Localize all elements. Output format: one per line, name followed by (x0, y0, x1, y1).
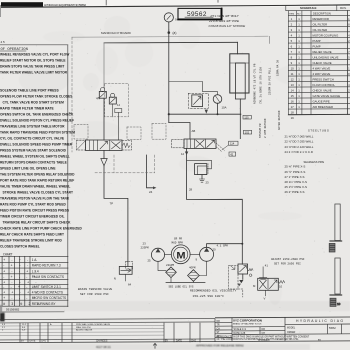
svg-text:23: 23 (143, 243, 147, 246)
svg-text:18: 18 (291, 111, 295, 115)
svg-text:59562: 59562 (329, 327, 336, 330)
wire main rail (104, 41, 238, 44)
svg-text:CH: CH (262, 332, 266, 335)
svg-text:AB: AB (192, 129, 196, 133)
svg-text:RELAY CHECK RATE SHIFTS FEED L: RELAY CHECK RATE SHIFTS FEED LIMIT (0, 233, 64, 237)
standpipe detail 2 (330, 258, 342, 306)
svg-text:25 ⅜" PIPE X-S: 25 ⅜" PIPE X-S (285, 165, 306, 169)
svg-text:S T E E L T U B G: S T E E L T U B G (308, 128, 329, 132)
reducing valve RA (96, 88, 106, 100)
svg-text:22 ½"OD 7.035 WALL: 22 ½"OD 7.035 WALL (285, 140, 314, 144)
svg-text:CHG: CHG (191, 341, 196, 343)
svg-text:24: 24 (149, 190, 153, 194)
svg-text:4117 08 21: 4117 08 21 (96, 345, 111, 349)
svg-text:ITEM: ITEM (289, 13, 294, 15)
svg-text:TRAVERSE RELAY CIRCUIT SHIFTS: TRAVERSE RELAY CIRCUIT SHIFTS CHECK (3, 221, 72, 225)
unloading valve UV (253, 278, 285, 300)
svg-text:22GPM 30 PSI FULL: 22GPM 30 PSI FULL (269, 67, 272, 95)
svg-text:10: 10 (337, 302, 341, 306)
wire cylinder rod line (239, 99, 241, 139)
svg-text:CYL OIL CONTACTS CIRCUIT CYL V: CYL OIL CONTACTS CIRCUIT CYL VALVE (0, 137, 65, 141)
svg-text:M6D RPM: M6D RPM (172, 241, 184, 244)
wire gauge trunk (168, 30, 170, 123)
svg-text:SET FOR 1500 PSI: SET FOR 1500 PSI (80, 293, 109, 296)
wire supply header (light) (72, 36, 268, 37)
svg-text:DATE: DATE (30, 340, 36, 343)
svg-text:CYL 3¼ BORE 16 STK 2150: CYL 3¼ BORE 16 STK 2150 (259, 67, 263, 104)
svg-text:SCHEDULE: SCHEDULE (300, 6, 317, 10)
svg-text:M: M (176, 251, 185, 261)
svg-text:NO: NO (297, 13, 301, 15)
svg-text:RATE ROD PUMP CYL START ROD SP: RATE ROD PUMP CYL START ROD SPEED (0, 203, 67, 207)
svg-text:26 2" PIPE X-S: 26 2" PIPE X-S (285, 190, 305, 194)
svg-text:ORDER: ORDER (287, 332, 296, 334)
wire V2 drain to lower bus (187, 148, 243, 264)
svg-text:26 ½" PIPE X-S: 26 ½" PIPE X-S (285, 170, 306, 174)
standpipe detail 1 (329, 204, 341, 252)
svg-text:SYSTEM PR: SYSTEM PR (259, 123, 262, 138)
svg-text:TANK RAPID TRAVERSE FEED PISTO: TANK RAPID TRAVERSE FEED PISTON SYSTEM (0, 131, 75, 135)
wire cylinder feed drop (237, 42, 239, 54)
svg-text:WHEEL WHEEL SYSTEM OIL SHIFTS: WHEEL WHEEL SYSTEM OIL SHIFTS DWELL (0, 155, 70, 159)
svg-text:PT.1 WAS 3/8" BOLT: PT.1 WAS 3/8" BOLT (211, 14, 240, 18)
svg-text:XYZ CORPORATION: XYZ CORPORATION (233, 319, 262, 323)
wire filter to valve V1 (103, 98, 105, 140)
svg-text:16: 16 (291, 100, 295, 104)
svg-text:MICRO SW CONTACTS: MICRO SW CONTACTS (32, 296, 66, 300)
wire cross rail (169, 113, 241, 115)
svg-text:WHEEL REVERSES VALVE CYL PORT: WHEEL REVERSES VALVE CYL PORT FLOW (0, 53, 70, 57)
tension valve NV (114, 261, 133, 286)
svg-text:TRAVERSE LINE SYSTEM TABLE MOT: TRAVERSE LINE SYSTEM TABLE MOTOR (0, 125, 65, 129)
wire to valve V2 (169, 123, 190, 140)
svg-text:OPENS SWITCH OIL TANK ENERGIZE: OPENS SWITCH OIL TANK ENERGIZED CHECK (0, 113, 74, 117)
svg-text:SEAMLESS PIPE: SEAMLESS PIPE (304, 160, 325, 164)
sequence of operation notes box (0, 45, 68, 307)
tank symbol T1 (199, 175, 209, 185)
svg-text:PIPE WAS ⅜ RELOCATED VALVE: PIPE WAS ⅜ RELOCATED VALVE (76, 323, 111, 326)
svg-text:CLOSES SWITCH WHEEL: CLOSES SWITCH WHEEL (0, 245, 40, 249)
svg-text:27 1" PIPE X-S: 27 1" PIPE X-S (285, 175, 305, 179)
svg-text:+ - + + -: + - + + - (3, 280, 39, 284)
wire V1 pilot stub (115, 109, 122, 140)
manifold dashed boundary (72, 37, 155, 173)
wire PM1 suction (158, 261, 166, 270)
left paper edge (0, 5, 1, 17)
svg-text:DWELL SOLENOID PISTON CYL PRES: DWELL SOLENOID PISTON CYL PRESS RELIEF (0, 119, 74, 123)
pilot circle P1 (213, 95, 226, 115)
wire PM2 discharge (207, 244, 243, 248)
svg-text:STROKE WHEEL VALVE CLOSES CYL: STROKE WHEEL VALVE CLOSES CYL START (3, 191, 73, 195)
svg-text:VALVE TIMER DRAIN WHEEL WHEEL: VALVE TIMER DRAIN WHEEL WHEEL WHEEL (0, 185, 70, 189)
manifold dashed box upper (105, 84, 129, 117)
chart underline (0, 311, 64, 313)
svg-text:2 ATM RETURN: 2 ATM RETURN (264, 118, 267, 138)
svg-text:SET FOR 2850 PSI: SET FOR 2850 PSI (274, 263, 301, 266)
svg-text:114: 114 (230, 142, 235, 146)
svg-text:4 WD RD CONTACTS: 4 WD RD CONTACTS (32, 290, 63, 294)
node tick 4 (269, 36, 271, 43)
svg-text:MODEL: MODEL (287, 328, 296, 330)
svg-text:N: N (114, 276, 116, 280)
wire brake branch (187, 160, 212, 169)
svg-text:42: 42 (230, 152, 233, 156)
svg-text:DATE: DATE (176, 340, 182, 343)
svg-text:23 P.B WAS 3/8" PIPE: 23 P.B WAS 3/8" PIPE (208, 19, 240, 23)
svg-text:OF THE CORPORATION IS PROHIBIT: OF THE CORPORATION IS PROHIBITED ALL RIG… (217, 338, 299, 341)
tag box 42 (229, 152, 236, 156)
svg-text:64: 64 (128, 283, 132, 287)
svg-text:7A: 7A (69, 111, 73, 115)
svg-text:OIL FILTER: OIL FILTER (313, 23, 328, 27)
svg-text:GR PR: GR PR (174, 238, 182, 241)
svg-text:OPENS FLOW FILTER TANK STROKE: OPENS FLOW FILTER TANK STROKE CLOSES (0, 95, 73, 99)
svg-text:CHANGES: CHANGES (96, 340, 108, 343)
title bar (top-left black label) (1, 2, 43, 6)
wire left feed drop (103, 43, 105, 88)
svg-text:WAS 1500 PSI: WAS 1500 PSI (76, 326, 91, 329)
svg-text:25 1½" PIPE X-S: 25 1½" PIPE X-S (285, 185, 307, 189)
bottom smudges (96, 343, 244, 349)
svg-text:RAPID TIMER FILTER TIMER RATE: RAPID TIMER FILTER TIMER RATE (0, 107, 55, 111)
svg-text:4.1 GPM: 4.1 GPM (217, 245, 229, 248)
svg-text:23: 23 (206, 181, 210, 185)
directional valve V2 (172, 139, 225, 152)
node a junction (168, 31, 177, 35)
svg-text:ADJUST 2150-2600 PSI: ADJUST 2150-2600 PSI (271, 258, 305, 261)
svg-text:TRAVERSE PISTON VALVE FLOW THE: TRAVERSE PISTON VALVE FLOW THE TANK (0, 197, 70, 201)
svg-text:DR: DR (217, 321, 221, 323)
svg-text:ADDED GAUGE: ADDED GAUGE (76, 329, 93, 332)
drain stub 41 (259, 263, 268, 279)
svg-text:DWELL SOLENOID SPEED FEED PUMP: DWELL SOLENOID SPEED FEED PUMP TIMER (0, 143, 73, 147)
wire PM2 suction (199, 261, 206, 275)
tubing and pipe specification notes (285, 128, 329, 194)
svg-text:28 1¼" PIPE X-S: 28 1¼" PIPE X-S (285, 180, 307, 184)
svg-text:RELIEF TRAVERSE STROKE LIMIT R: RELIEF TRAVERSE STROKE LIMIT ROD (0, 239, 63, 243)
title block dense rows (217, 335, 310, 341)
pressure gauge G1 (164, 13, 177, 30)
svg-text:(a): (a) (173, 31, 177, 35)
svg-text:DATE 4-28: DATE 4-28 (234, 332, 246, 335)
svg-text:AIRBORNE 472 LB WT CYL PR: AIRBORNE 472 LB WT CYL PR (254, 63, 257, 104)
tag box 125 (243, 115, 251, 119)
svg-text:17: 17 (291, 105, 295, 109)
svg-text:1 A.: 1 A. (32, 258, 38, 262)
svg-text:14: 14 (117, 103, 120, 107)
svg-text:BASIN TENSION VALVE: BASIN TENSION VALVE (78, 288, 112, 291)
pilot dashed box c (152, 123, 166, 139)
drawing number box 59562 (178, 8, 222, 19)
svg-text:L 3.4: L 3.4 (32, 269, 39, 273)
wire branch 24 (147, 155, 157, 194)
revision strip (0, 319, 350, 343)
svg-text:125: 125 (244, 115, 249, 119)
flow control valve LV (228, 264, 253, 297)
svg-text:22GPM: 22GPM (141, 246, 149, 249)
svg-text:RETURN STOPS DRAIN CONTACTS TA: RETURN STOPS DRAIN CONTACTS TABLE (0, 161, 68, 165)
svg-text:CHG: CHG (41, 341, 46, 343)
pilot dashed box b (127, 127, 141, 139)
svg-text:14: 14 (291, 89, 295, 93)
svg-text:AIR BREATHER: AIR BREATHER (313, 105, 333, 109)
svg-text:BY: BY (21, 341, 25, 343)
svg-text:4GPM: 4GPM (189, 267, 196, 270)
svg-text:CHECK VALVE: CHECK VALVE (313, 89, 332, 93)
svg-text:BY: BY (318, 340, 322, 342)
title block (215, 317, 350, 342)
strainer S1 (166, 264, 177, 278)
fold tick top (105, 0, 108, 5)
brake cylinder C2 (195, 164, 208, 175)
electric motor M1 (165, 245, 200, 264)
svg-text:MATL: MATL (340, 7, 347, 10)
svg-text:REPRODUCTION OF THIS DWG IN WH: REPRODUCTION OF THIS DWG IN WHOLE OR PAR… (217, 335, 310, 338)
centerfold mark (153, 343, 157, 349)
svg-text:CHECK VALVE: CHECK VALVE (313, 61, 332, 65)
svg-text:150-225 SSU 100°F: 150-225 SSU 100°F (193, 294, 225, 298)
svg-text:PRESS SYSTEM VALVE START SOLEN: PRESS SYSTEM VALVE START SOLENOID (0, 149, 67, 153)
svg-text:23 ⅝"OD 2.120 WALL: 23 ⅝"OD 2.120 WALL (285, 145, 314, 149)
svg-text:DESCRIPTION: DESCRIPTION (313, 12, 331, 16)
check valve CV1 (101, 151, 107, 166)
paper edge blob (0, 313, 5, 322)
svg-text:41: 41 (265, 263, 269, 267)
svg-text:FEED PISTON RATE CIRCUIT PRESS: FEED PISTON RATE CIRCUIT PRESS PRESS (0, 209, 70, 213)
svg-text:CH: CH (217, 328, 221, 330)
svg-text:RETURNING BY: RETURNING BY (32, 302, 57, 306)
title block texts (217, 319, 345, 338)
svg-text:59156982: 59156982 (6, 308, 20, 312)
svg-text:PALM SW CONTACTS: PALM SW CONTACTS (32, 275, 64, 279)
svg-text:28: 28 (189, 187, 193, 191)
svg-text:25: 25 (148, 258, 152, 262)
svg-text:102: 102 (245, 130, 250, 134)
svg-text:24 2 ⅞"OD 2.1 ⅝ C.D: 24 2 ⅞"OD 2.1 ⅝ C.D (285, 150, 313, 154)
tag box 114 (222, 141, 238, 150)
svg-text:RAPID RETURN 7.3: RAPID RETURN 7.3 (32, 264, 61, 268)
svg-text:7P: 7P (110, 202, 114, 206)
node junction W4 (168, 113, 170, 115)
pilot operated valve SQ1 (188, 93, 208, 108)
svg-text:CHECK RATE LINE PORT PUMP CHEC: CHECK RATE LINE PORT PUMP CHECK ENERGIZE… (0, 227, 83, 231)
svg-text:UNLOADING VALVE: UNLOADING VALVE (313, 56, 339, 60)
tag box 102 (243, 130, 251, 134)
handwritten revision notes (208, 14, 246, 28)
svg-text:22GPM: 22GPM (166, 264, 174, 267)
svg-text:SPEED LIMIT LINE OIL OPENS LIN: SPEED LIMIT LINE OIL OPENS LINE (0, 167, 56, 171)
check valve under SQ1 (205, 110, 208, 114)
svg-text:12: 12 (181, 152, 185, 156)
wire V1 return run (104, 166, 128, 267)
svg-text:APPROVED FOR RELEASE 59562: APPROVED FOR RELEASE 59562 (196, 343, 244, 347)
pump PM2 (196, 247, 217, 261)
wire pilot branch (169, 82, 218, 95)
node pilot junction (217, 113, 219, 115)
svg-text:19: 19 (291, 116, 295, 120)
svg-text:CYL TANK VALVE ROD START SYSTE: CYL TANK VALVE ROD START SYSTEM (3, 101, 65, 105)
svg-text:BY: BY (165, 341, 169, 343)
pilot dashed box a (74, 124, 88, 139)
svg-text:20: 20 (213, 247, 217, 251)
pump PM1 (148, 248, 165, 262)
svg-text:DR: DR (262, 328, 266, 331)
svg-text:GATE VALVE GAUGE: GATE VALVE GAUGE (313, 94, 341, 98)
svg-text:AFTER RETURN: AFTER RETURN (278, 110, 281, 130)
svg-text:V: V (264, 297, 266, 301)
svg-text:PORT RATE ROD TANK RAPID RETUR: PORT RATE ROD TANK RAPID RETURN RELIEF (0, 179, 74, 183)
svg-text:TR: TR (217, 325, 220, 327)
top border line (0, 5, 350, 7)
svg-text:GAUGE PIPE: GAUGE PIPE (313, 100, 330, 104)
svg-text:HYDRAULIC DIAG: HYDRAULIC DIAG (296, 319, 344, 323)
svg-text:THE SYSTEM FILTER OPENS RELAY: THE SYSTEM FILTER OPENS RELAY SOLENOID (0, 173, 75, 177)
svg-text:10A: 10A (222, 106, 227, 110)
svg-text:4 5: 4 5 (1, 40, 6, 44)
svg-text:OIL FILTER: OIL FILTER (313, 28, 328, 32)
strainer S2 (188, 267, 200, 282)
svg-text:RESERVOIR: RESERVOIR (313, 17, 329, 21)
svg-text:LIMIT SWITCH 2.3.1: LIMIT SWITCH 2.3.1 (32, 285, 61, 289)
svg-text:COM.B WAS 1/2" STROKE: COM.B WAS 1/2" STROKE (209, 24, 247, 28)
parts list table (286, 5, 350, 115)
reducing valve RB (109, 93, 120, 117)
directional valve V1 (4-way solenoid) (77, 140, 132, 151)
suction header line (166, 281, 205, 283)
svg-text:RECOMMENDED OIL VISCOSITY: RECOMMENDED OIL VISCOSITY (190, 289, 237, 293)
main cylinder C1 (230, 54, 249, 99)
svg-text:21 ⅜"OD 7.065 WALL: 21 ⅜"OD 7.065 WALL (285, 134, 314, 138)
svg-text:TIMER CIRCUIT CIRCUIT ENERGIZE: TIMER CIRCUIT CIRCUIT ENERGIZED OIL (0, 215, 64, 219)
svg-text:BRAND OF MACHINE TOOLS: BRAND OF MACHINE TOOLS (233, 323, 262, 326)
svg-text:15: 15 (291, 94, 295, 98)
